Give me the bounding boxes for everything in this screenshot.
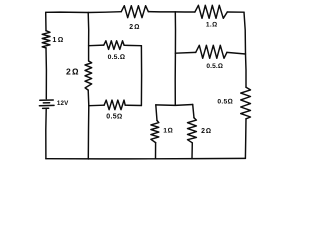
wire top rail middle segment: [148, 11, 195, 13]
svg-text:12V: 12V: [57, 100, 69, 107]
wire left side (top): [45, 12, 47, 30]
wire bottom-pair left drop: [156, 105, 157, 121]
svg-text:2Ω: 2Ω: [129, 24, 140, 31]
wire top rail left segment: [46, 11, 122, 14]
wire node-A vertical (top segment): [87, 13, 90, 62]
wire left side (bottom): [45, 110, 47, 159]
resistor R1 2Ω top horizontal: [121, 6, 148, 18]
resistor R9 1Ω bottom-left vertical: [151, 121, 159, 143]
resistor R8 0.5Ω right branch horizontal: [196, 45, 227, 58]
wire top rail right segment: [227, 11, 244, 13]
battery V1 plate 2 (short): [43, 102, 49, 104]
svg-text:0.5Ω: 0.5Ω: [106, 114, 122, 121]
svg-text:0.5Ω: 0.5Ω: [217, 98, 232, 105]
resistor R6 0.5Ω middle-top horizontal: [104, 41, 124, 50]
battery V1 plate 4 (short): [43, 107, 49, 109]
wire right 0.5Ω branch (left lead): [175, 51, 195, 54]
wire right side (top): [244, 12, 246, 87]
svg-text:1Ω: 1Ω: [163, 127, 173, 134]
wire bottom-right resistor to rail: [191, 143, 193, 159]
resistor R10 2Ω bottom-right vertical: [188, 118, 197, 143]
resistor R3 1Ω left vertical: [42, 31, 50, 48]
resistor R2 1Ω top-right horizontal: [195, 5, 227, 18]
wire right side (bottom): [244, 119, 247, 159]
wire middle-box right side: [140, 46, 142, 106]
resistor R7 0.5Ω middle-bottom horizontal: [104, 100, 125, 110]
wire bottom-left resistor to rail: [155, 143, 157, 159]
svg-text:0.5.Ω: 0.5.Ω: [206, 63, 223, 70]
circuit schematic canvas: [0, 0, 300, 168]
wire middle-box top branch (left lead): [89, 44, 104, 47]
wire node-A vertical (bottom segment): [87, 90, 90, 159]
wire left side (middle): [45, 48, 47, 99]
wire bottom-pair right drop: [193, 105, 194, 118]
battery V1 plate 1 (long): [40, 99, 53, 101]
svg-text:2Ω: 2Ω: [201, 128, 212, 135]
wire bottom-pair top connector: [156, 104, 193, 107]
battery V1 plate 3 (long): [39, 104, 54, 106]
svg-text:1Ω: 1Ω: [52, 35, 64, 44]
resistor R5 2Ω middle vertical: [85, 61, 92, 90]
svg-text:1.Ω: 1.Ω: [206, 22, 217, 29]
svg-text:2Ω: 2Ω: [66, 67, 80, 77]
wire node-B vertical: [174, 12, 176, 105]
svg-text:0.5.Ω: 0.5.Ω: [108, 54, 126, 61]
wire bottom rail: [46, 157, 246, 160]
resistor R4 0.5Ω right vertical: [241, 87, 251, 119]
wire middle-box bottom branch (right lead): [125, 104, 141, 106]
wire middle-box bottom branch (left lead): [89, 104, 104, 107]
wire middle-box top branch (right lead): [124, 44, 141, 46]
wire right 0.5Ω branch (right lead): [227, 52, 246, 54]
